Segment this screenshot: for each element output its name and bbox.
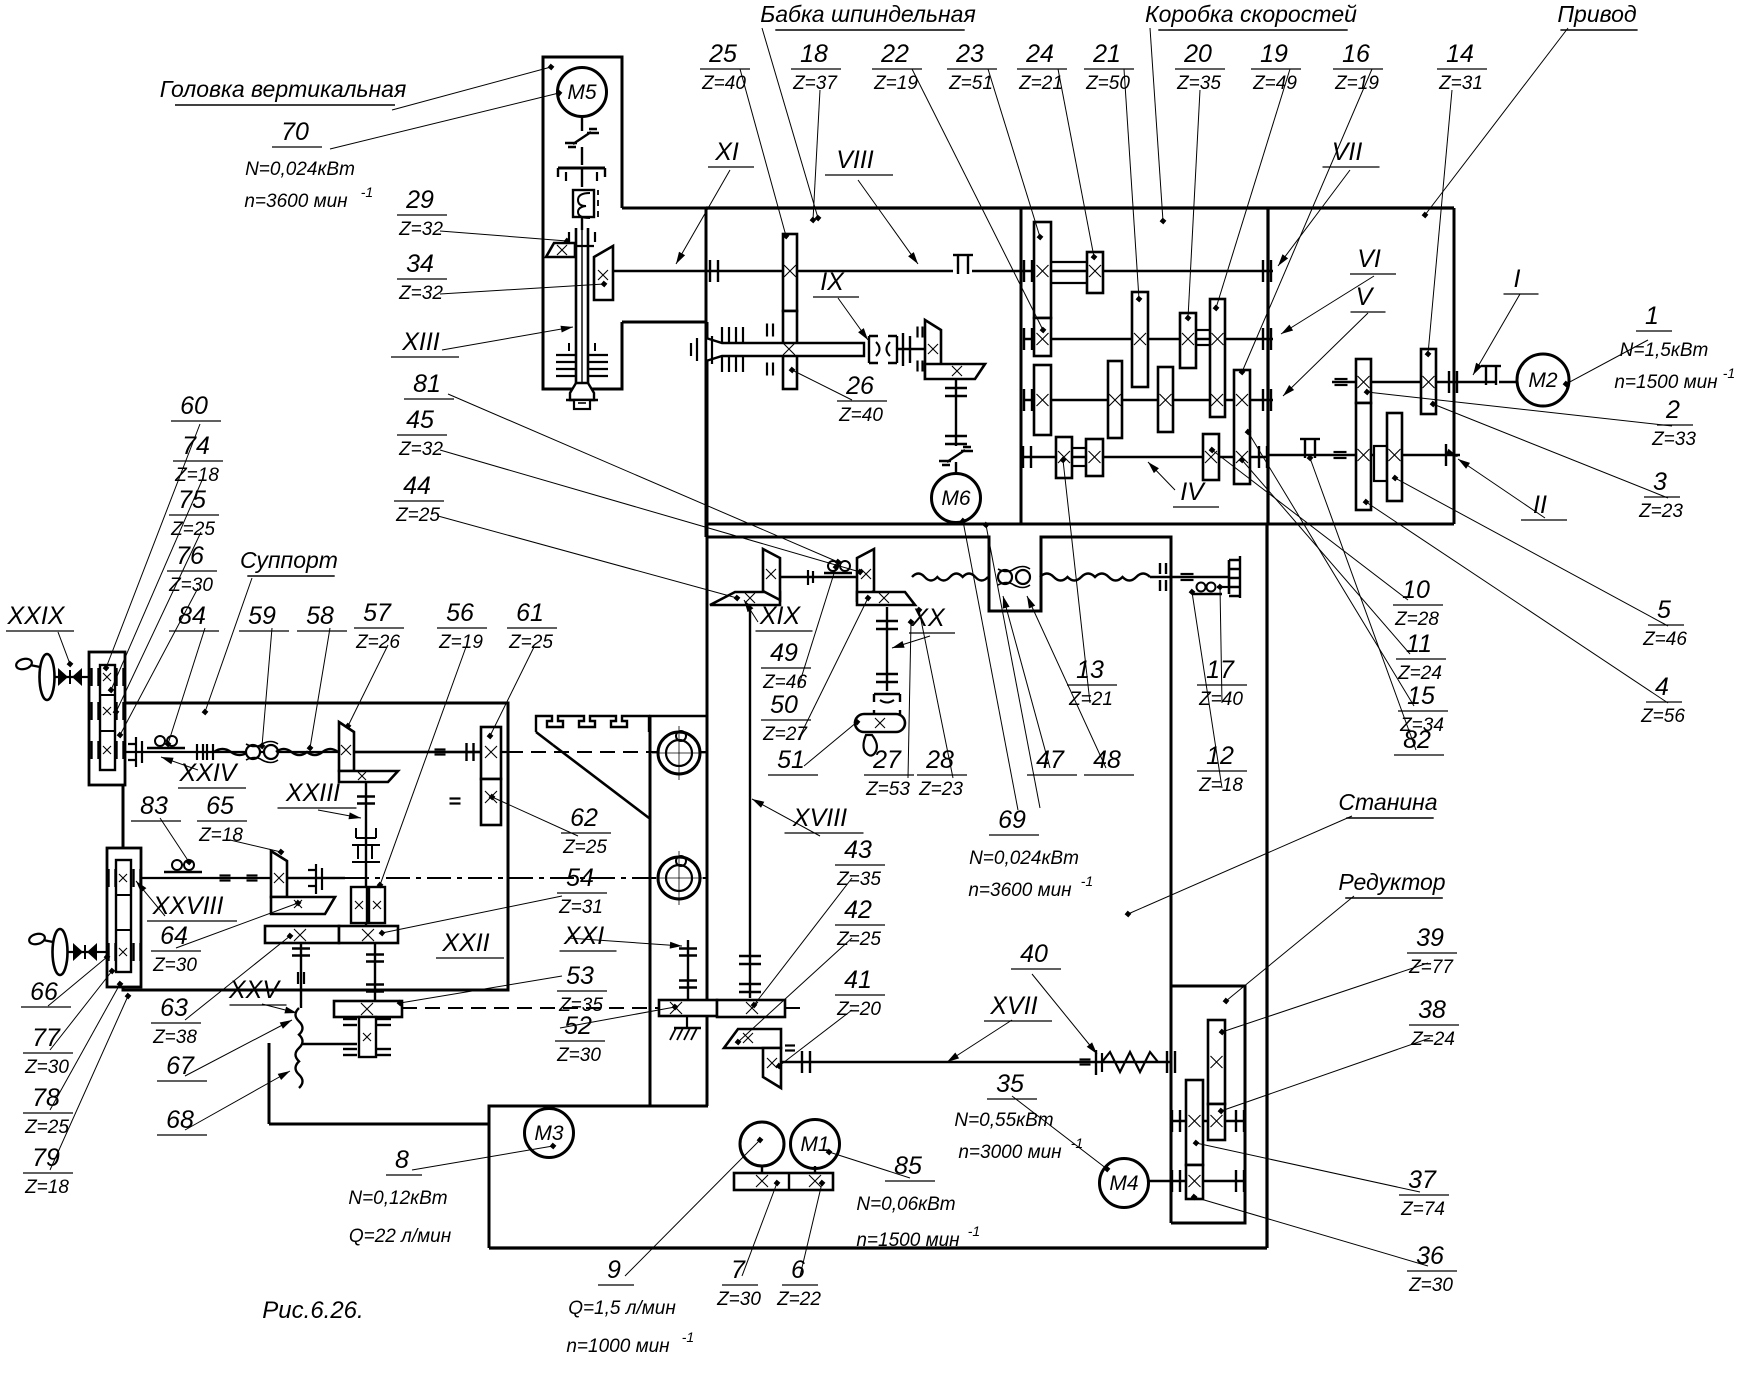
- gear pair on IV left: [1056, 437, 1072, 478]
- svg-text:Z=19: Z=19: [1334, 73, 1379, 94]
- svg-text:Z=19: Z=19: [438, 632, 483, 653]
- svg-text:V: V: [1356, 283, 1375, 311]
- support (Support) box: [123, 703, 508, 990]
- spindle IX left end: [696, 338, 698, 361]
- svg-text:34: 34: [406, 250, 434, 278]
- svg-text:70: 70: [281, 118, 309, 146]
- svg-text:Z=40: Z=40: [701, 73, 746, 94]
- svg-text:41: 41: [844, 966, 872, 994]
- svg-text:Z=31: Z=31: [1438, 73, 1483, 94]
- screw nut lower: [658, 857, 700, 899]
- gear block Z=51/Z=19 on VII-VI: [1034, 222, 1051, 318]
- shaft XXVIII elements: [308, 864, 322, 894]
- clutch on XXIII: [352, 828, 380, 862]
- universal joint: [869, 336, 897, 363]
- svg-text:45: 45: [406, 406, 434, 434]
- svg-text:Бабка шпиндельная: Бабка шпиндельная: [760, 1, 975, 27]
- svg-text:N=0,12кВт: N=0,12кВт: [348, 1188, 447, 1209]
- svg-text:Z=31: Z=31: [558, 897, 603, 918]
- shaft XXIII vertical: [365, 782, 367, 926]
- svg-text:Z=35: Z=35: [1176, 73, 1221, 94]
- gear 52 Z=30: [659, 1000, 717, 1016]
- svg-text:Суппорт: Суппорт: [240, 547, 338, 573]
- lower left contour vertical: [268, 1043, 271, 1124]
- svg-text:35: 35: [996, 1070, 1024, 1098]
- svg-text:Головка вертикальная: Головка вертикальная: [160, 76, 407, 102]
- svg-text:14: 14: [1446, 40, 1474, 68]
- svg-text:Z=19: Z=19: [873, 73, 918, 94]
- gear 61 Z=25: [481, 727, 501, 779]
- svg-text:Z=22: Z=22: [776, 1289, 821, 1310]
- shaft XVII: [781, 1061, 1171, 1063]
- link to flexible shaft XXV: [301, 1043, 357, 1045]
- bearing bracket: [903, 333, 910, 366]
- svg-text:XI: XI: [714, 138, 739, 166]
- svg-text:Q=22 л/мин: Q=22 л/мин: [349, 1226, 452, 1247]
- bevel pair XXIX: [58, 668, 68, 686]
- svg-text:22: 22: [880, 40, 909, 68]
- svg-text:38: 38: [1418, 996, 1446, 1024]
- svg-text:18: 18: [800, 40, 828, 68]
- gear 24 Z=21: [1087, 252, 1103, 293]
- svg-text:Z=40: Z=40: [1198, 689, 1243, 710]
- svg-text:82: 82: [1403, 726, 1431, 754]
- svg-text:n=1500 мин: n=1500 мин: [1614, 372, 1718, 393]
- svg-text:66: 66: [30, 978, 58, 1006]
- svg-text:53: 53: [566, 962, 594, 990]
- upper gear stack: [89, 652, 125, 785]
- shaft XIX horizontal: [780, 576, 857, 578]
- gear 38 Z=24: [1208, 1104, 1225, 1140]
- svg-text:Z=77: Z=77: [1408, 957, 1454, 978]
- svg-text:50: 50: [770, 691, 798, 719]
- svg-text:Z=50: Z=50: [1085, 73, 1130, 94]
- svg-text:XIII: XIII: [401, 328, 440, 356]
- svg-text:Z=32: Z=32: [398, 439, 443, 460]
- svg-text:Z=26: Z=26: [355, 632, 400, 653]
- svg-text:Z=30: Z=30: [556, 1045, 601, 1066]
- svg-text:-1: -1: [1081, 873, 1093, 889]
- lower left contour horizontal: [269, 1123, 489, 1126]
- svg-text:42: 42: [844, 896, 872, 924]
- bevel gear 34: [594, 246, 613, 300]
- gear on IV right: [1203, 434, 1219, 480]
- element 84: [147, 747, 185, 750]
- svg-text:3: 3: [1653, 468, 1667, 496]
- svg-text:29: 29: [405, 186, 434, 214]
- svg-text:Z=25: Z=25: [395, 505, 440, 526]
- svg-text:М5: М5: [567, 81, 596, 104]
- svg-text:Z=53: Z=53: [865, 779, 910, 800]
- svg-text:43: 43: [844, 836, 872, 864]
- lower handwheel: [53, 929, 68, 975]
- bevel gear 29: [546, 243, 575, 257]
- bevel 64 flange: [271, 897, 335, 914]
- svg-text:XXIV: XXIV: [179, 759, 239, 787]
- top edge of spindle head / gearbox / drive: [706, 206, 1454, 209]
- worm pair 47-48: [998, 570, 1012, 584]
- svg-text:N=0,024кВт: N=0,024кВт: [969, 848, 1079, 869]
- spindle spline hatch: [556, 354, 576, 356]
- svg-text:5: 5: [1657, 596, 1671, 624]
- svg-text:61: 61: [516, 599, 544, 627]
- svg-text:-1: -1: [968, 1223, 980, 1239]
- svg-text:75: 75: [178, 486, 206, 514]
- svg-text:60: 60: [180, 392, 208, 420]
- bed bottom edge: [489, 1246, 1267, 1249]
- bevel gear 49 vertical: [763, 549, 780, 600]
- svg-text:16: 16: [1342, 40, 1370, 68]
- bracket diagonal: [536, 732, 553, 745]
- svg-text:Z=18: Z=18: [1198, 775, 1243, 796]
- bevel gear 45 flange right: [857, 592, 915, 605]
- svg-text:81: 81: [413, 370, 441, 398]
- svg-text:Редуктор: Редуктор: [1338, 869, 1445, 895]
- pump gear box 7/6: [734, 1173, 833, 1190]
- drip: [864, 735, 877, 756]
- svg-text:Z=24: Z=24: [1397, 663, 1442, 684]
- shaft XXI: [687, 940, 689, 1000]
- reducer housing: [1171, 986, 1245, 1223]
- shaft V: [1023, 399, 1273, 401]
- svg-text:М6: М6: [941, 487, 970, 510]
- svg-text:15: 15: [1407, 682, 1435, 710]
- bearing XXIV start: [128, 737, 142, 767]
- svg-text:Z=23: Z=23: [918, 779, 963, 800]
- svg-text:23: 23: [955, 40, 984, 68]
- svg-text:Z=33: Z=33: [1651, 429, 1696, 450]
- spline ticks IX: [721, 327, 723, 343]
- svg-text:VIII: VIII: [836, 146, 874, 174]
- element 83: [164, 871, 202, 874]
- spindle head left wall: [705, 208, 708, 537]
- motor M5: [558, 68, 607, 117]
- svg-text:27: 27: [872, 746, 902, 774]
- table platform T-slot profile: [536, 716, 649, 732]
- svg-text:N=0,06кВт: N=0,06кВт: [856, 1194, 955, 1215]
- svg-text:Z=25: Z=25: [836, 929, 881, 950]
- column tower right edge: [706, 322, 709, 1106]
- svg-text:85: 85: [894, 1152, 922, 1180]
- svg-text:М3: М3: [534, 1122, 563, 1145]
- motor M4: [1100, 1159, 1149, 1208]
- svg-text:Коробка скоростей: Коробка скоростей: [1145, 1, 1357, 27]
- gear block 2/4 Z=33 Z=56: [1356, 359, 1371, 403]
- svg-text:Z=21: Z=21: [1068, 689, 1113, 710]
- svg-text:76: 76: [176, 542, 204, 570]
- motor M3: [525, 1109, 574, 1158]
- flexible shaft 67/68: [296, 1008, 303, 1088]
- shaft XXII down: [374, 943, 376, 1001]
- svg-text:58: 58: [306, 602, 334, 630]
- lower gear stack: [107, 848, 141, 987]
- svg-text:n=3000 мин: n=3000 мин: [958, 1142, 1062, 1163]
- svg-text:13: 13: [1076, 656, 1104, 684]
- svg-text:36: 36: [1416, 1242, 1444, 1270]
- svg-text:47: 47: [1036, 746, 1065, 774]
- shaft VI: [1023, 338, 1273, 340]
- svg-text:Z=27: Z=27: [762, 724, 808, 745]
- svg-text:52: 52: [564, 1012, 592, 1040]
- shaft from gear 63 down to flexible XXV: [300, 944, 302, 1008]
- svg-text:44: 44: [403, 472, 431, 500]
- svg-text:74: 74: [182, 432, 210, 460]
- svg-text:XXIII: XXIII: [285, 779, 340, 807]
- gear pair on XXIII: [351, 887, 367, 923]
- bevel gear pair IX (vertical output): [925, 320, 941, 378]
- svg-text:83: 83: [140, 792, 168, 820]
- ground symbol: [686, 1016, 688, 1028]
- svg-text:2: 2: [1665, 396, 1680, 424]
- shaft II: [1268, 454, 1332, 456]
- svg-text:57: 57: [363, 599, 392, 627]
- svg-text:65: 65: [206, 792, 234, 820]
- wall between spindle head and gearbox: [1020, 208, 1023, 524]
- reducer shaft 3 to M4: [1146, 1180, 1245, 1182]
- shaft XXIV axis solid part: [125, 751, 508, 753]
- gear 26 Z=40: [783, 311, 797, 389]
- svg-text:Z=46: Z=46: [1642, 629, 1687, 650]
- gear 14 Z=31 on I: [1421, 349, 1436, 414]
- svg-text:51: 51: [777, 746, 805, 774]
- svg-text:Z=24: Z=24: [1410, 1029, 1455, 1050]
- elastic coupling: [565, 129, 599, 147]
- svg-text:7: 7: [731, 1256, 746, 1284]
- gear 5 Z=46: [1387, 413, 1402, 501]
- svg-text:21: 21: [1092, 40, 1121, 68]
- svg-text:78: 78: [32, 1084, 60, 1112]
- motor M6: [932, 474, 981, 523]
- svg-text:Z=35: Z=35: [836, 869, 881, 890]
- svg-text:XVIII: XVIII: [792, 804, 847, 832]
- svg-text:Z=32: Z=32: [398, 283, 443, 304]
- gear 19 Z=49: [1210, 299, 1225, 417]
- svg-text:Z=32: Z=32: [398, 219, 443, 240]
- svg-text:Рис.6.26.: Рис.6.26.: [262, 1297, 363, 1324]
- svg-text:39: 39: [1416, 924, 1444, 952]
- svg-text:Z=25: Z=25: [24, 1117, 69, 1138]
- svg-text:54: 54: [566, 864, 594, 892]
- motor M1: [791, 1120, 840, 1169]
- shaft XI / VIII: [613, 270, 953, 272]
- shaft VII in gearbox: [972, 270, 1273, 272]
- flexible shaft 59: [214, 749, 248, 755]
- svg-text:4: 4: [1655, 673, 1669, 701]
- svg-text:XXIX: XXIX: [7, 602, 66, 630]
- svg-text:XXII: XXII: [441, 929, 489, 957]
- svg-text:63: 63: [160, 994, 188, 1022]
- clutch link II: [1374, 446, 1387, 481]
- svg-text:56: 56: [446, 599, 474, 627]
- dashed feed axis: [402, 1007, 660, 1009]
- bottom edge of headstock boxes: [706, 523, 1454, 526]
- svg-text:Z=51: Z=51: [948, 73, 993, 94]
- gear 20 Z=35: [1180, 313, 1196, 368]
- svg-text:Z=30: Z=30: [168, 575, 213, 596]
- bearing: [807, 570, 809, 585]
- bearing marks top: [568, 232, 570, 242]
- svg-text:77: 77: [32, 1024, 61, 1052]
- svg-text:59: 59: [248, 602, 276, 630]
- svg-text:17: 17: [1206, 656, 1235, 684]
- screw nut upper: [658, 732, 700, 774]
- bevel 57: [339, 722, 354, 771]
- svg-text:IX: IX: [820, 268, 845, 296]
- svg-text:XXV: XXV: [228, 976, 281, 1004]
- leader lines with reference dots: [762, 28, 818, 218]
- svg-text:VI: VI: [1357, 245, 1381, 273]
- svg-text:Z=20: Z=20: [836, 999, 881, 1020]
- svg-text:Z=28: Z=28: [1394, 609, 1439, 630]
- worm wheel 12 circles: [1197, 583, 1206, 592]
- svg-text:М2: М2: [1528, 369, 1557, 392]
- gear 43 Z=35: [717, 1000, 785, 1017]
- svg-text:XX: XX: [910, 604, 946, 632]
- overload clutch: [573, 190, 594, 217]
- svg-text:67: 67: [166, 1052, 195, 1080]
- svg-text:М4: М4: [1109, 1172, 1138, 1195]
- vertical head housing: [543, 57, 622, 208]
- svg-text:n=3600 мин: n=3600 мин: [968, 880, 1072, 901]
- svg-text:19: 19: [1260, 40, 1288, 68]
- extra eq marks near gear 62: [450, 797, 461, 799]
- svg-text:Z=46: Z=46: [762, 672, 807, 693]
- gear 36 Z=30: [1186, 1165, 1203, 1199]
- svg-text:Z=18: Z=18: [24, 1177, 69, 1198]
- gear below XXII: [359, 1017, 376, 1057]
- svg-text:24: 24: [1025, 40, 1054, 68]
- coupling: [196, 744, 198, 760]
- drive box right edge: [1453, 208, 1456, 524]
- shaft XXVIII solid part: [131, 877, 345, 879]
- tool holder 51: [855, 714, 905, 732]
- svg-text:Z=30: Z=30: [716, 1289, 761, 1310]
- svg-text:Z=25: Z=25: [170, 519, 215, 540]
- svg-text:IV: IV: [1180, 478, 1206, 506]
- svg-text:Z=21: Z=21: [1018, 73, 1063, 94]
- overload clutch 40 and spring: [1095, 1050, 1097, 1075]
- rack comb 17: [1229, 556, 1240, 598]
- svg-text:XXI: XXI: [563, 922, 604, 950]
- svg-text:9: 9: [607, 1256, 621, 1284]
- svg-text:Z=30: Z=30: [24, 1057, 69, 1078]
- dashed axis to vertical screw: [508, 751, 706, 753]
- elastic coupling M6: [939, 447, 973, 465]
- svg-text:XVII: XVII: [989, 992, 1037, 1020]
- svg-text:79: 79: [32, 1144, 60, 1172]
- svg-text:Z=37: Z=37: [792, 73, 838, 94]
- svg-text:40: 40: [1020, 940, 1048, 968]
- svg-text:n=1500 мин: n=1500 мин: [856, 1230, 960, 1251]
- bed (Stanina) outline: [706, 537, 1171, 986]
- vertical shaft to M6: [955, 379, 957, 446]
- svg-text:6: 6: [791, 1256, 805, 1284]
- bevel 42: [724, 1029, 781, 1048]
- reducer gear 39 Z=77: [1208, 1020, 1225, 1104]
- shaft XVIII: [749, 607, 751, 998]
- vertical shaft XX: [886, 607, 888, 691]
- svg-text:20: 20: [1183, 40, 1212, 68]
- dash-dot axis: [345, 877, 706, 879]
- reducer shaft 2: [1171, 1120, 1245, 1122]
- bevel 41: [763, 1048, 781, 1088]
- svg-text:N=0,024кВт: N=0,024кВт: [245, 159, 355, 180]
- bed right edge: [1265, 524, 1268, 1248]
- svg-text:8: 8: [395, 1146, 409, 1174]
- gear on V left: [1108, 361, 1122, 438]
- shaft I: [1332, 381, 1496, 383]
- bearing right: [1228, 560, 1231, 594]
- svg-text:М1: М1: [800, 1133, 829, 1156]
- bearing pair: [1159, 563, 1161, 574]
- svg-text:26: 26: [845, 372, 874, 400]
- svg-text:Станина: Станина: [1338, 789, 1437, 815]
- flexible shaft 47/48: [912, 574, 988, 581]
- universal joint XX: [874, 694, 900, 716]
- shaft IV: [1021, 456, 1268, 458]
- svg-text:68: 68: [166, 1106, 194, 1134]
- svg-text:I: I: [1514, 265, 1521, 293]
- arm bottom edge: [622, 321, 706, 324]
- bevel 65: [271, 851, 287, 897]
- svg-text:Z=56: Z=56: [1640, 706, 1685, 727]
- svg-text:49: 49: [770, 639, 798, 667]
- bevel gear 50 vertical right: [857, 549, 874, 600]
- svg-text:VII: VII: [1332, 138, 1363, 166]
- svg-text:62: 62: [570, 804, 598, 832]
- svg-text:84: 84: [178, 602, 206, 630]
- arm top edge: [622, 207, 706, 210]
- svg-text:48: 48: [1093, 746, 1121, 774]
- spindle IX body: [706, 338, 864, 361]
- svg-text:XXVIII: XXVIII: [152, 892, 224, 920]
- svg-text:12: 12: [1206, 742, 1234, 770]
- svg-text:II: II: [1533, 491, 1547, 519]
- svg-text:10: 10: [1402, 576, 1430, 604]
- svg-text:-1: -1: [361, 184, 373, 200]
- svg-text:Z=30: Z=30: [152, 955, 197, 976]
- upper handwheel: [40, 654, 55, 700]
- wall between gearbox and drive: [1266, 208, 1269, 524]
- gear block lower on V: [1034, 365, 1051, 435]
- spindle nose taper: [570, 383, 594, 400]
- svg-text:Z=38: Z=38: [152, 1027, 197, 1048]
- motor M2: [1517, 354, 1569, 406]
- svg-text:64: 64: [160, 922, 188, 950]
- svg-text:Z=49: Z=49: [1252, 73, 1297, 94]
- svg-text:Z=25: Z=25: [562, 837, 607, 858]
- svg-text:28: 28: [925, 746, 954, 774]
- svg-text:-1: -1: [682, 1329, 694, 1345]
- gear 25 block Z=40: [783, 234, 797, 311]
- gear on V mid: [1158, 367, 1173, 432]
- shaft to gear 61: [354, 751, 481, 753]
- svg-text:-1: -1: [1723, 365, 1735, 381]
- gear on XXII: [334, 1001, 402, 1017]
- svg-text:N=1,5кВт: N=1,5кВт: [1620, 340, 1709, 361]
- svg-text:Z=74: Z=74: [1400, 1199, 1445, 1220]
- M5 shaft: [581, 115, 583, 131]
- svg-text:n=1000 мин: n=1000 мин: [566, 1336, 670, 1357]
- svg-text:37: 37: [1408, 1166, 1437, 1194]
- svg-text:Z=23: Z=23: [1638, 501, 1683, 522]
- bevel gear 44 left flange: [710, 592, 780, 605]
- clutch flange: [558, 167, 605, 170]
- oil tank box: [489, 1106, 708, 1248]
- svg-text:69: 69: [998, 806, 1026, 834]
- svg-text:N=0,55кВт: N=0,55кВт: [954, 1110, 1053, 1131]
- svg-text:Z=30: Z=30: [1408, 1275, 1453, 1296]
